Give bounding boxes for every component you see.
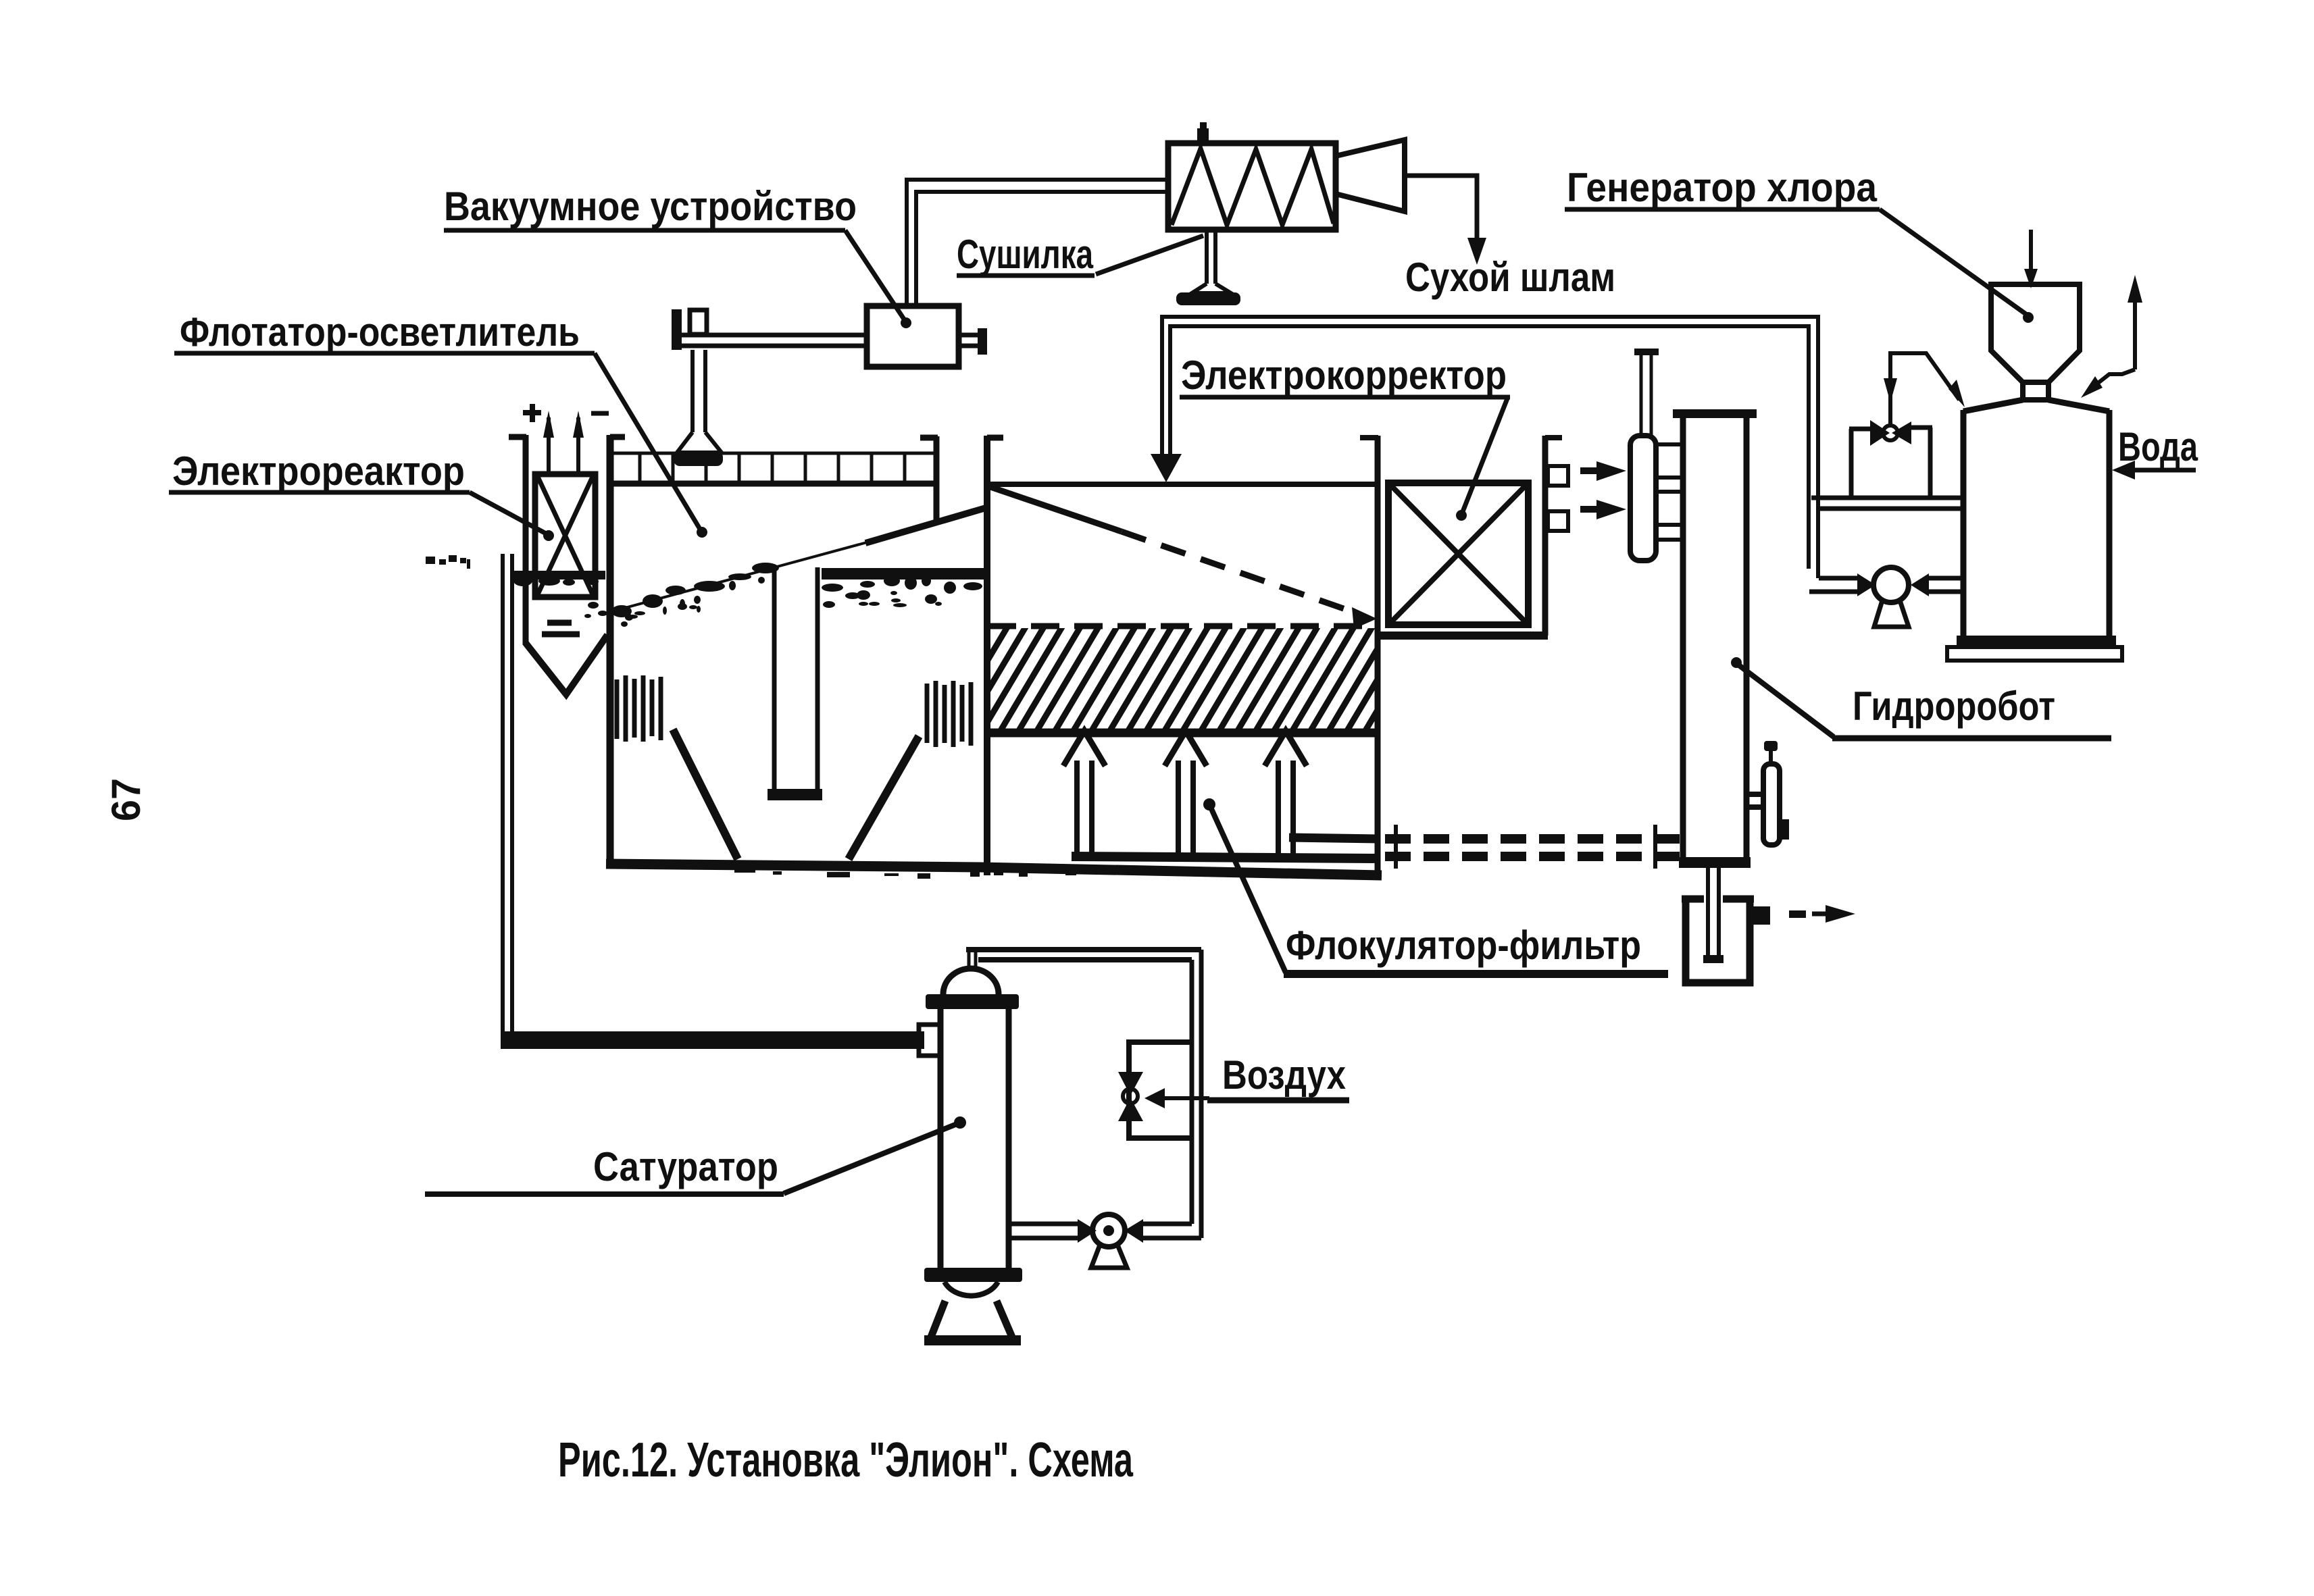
saturator shell <box>940 1008 1009 1268</box>
svg-text:Флотатор-осветлитель: Флотатор-осветлитель <box>180 309 580 355</box>
svg-text:Сухой шлам: Сухой шлам <box>1405 255 1615 300</box>
label Флокулятор-фильтр <box>1203 798 1668 974</box>
sludge drain dashed line upper <box>1385 834 1680 844</box>
mixer comb plates <box>1656 444 1683 540</box>
lattice end post <box>920 436 938 521</box>
outlet pipe cap <box>1703 955 1724 963</box>
valve loop <box>1849 428 1932 498</box>
level gauge stubs <box>1749 794 1765 807</box>
pipe thick run to saturator <box>501 1031 924 1049</box>
label Электрокорректор <box>1180 353 1510 521</box>
vacuum shaft left flange <box>672 309 682 350</box>
filter bed top dashed <box>988 623 1376 629</box>
label Гидроробот <box>1731 657 2111 738</box>
svg-text:Сушилка: Сушилка <box>957 232 1093 277</box>
saturator bottom flange <box>924 1268 1022 1282</box>
dryer screw zigzag <box>1172 149 1334 225</box>
vacuum device body <box>867 306 959 367</box>
wash manifold pipe <box>1072 856 1380 858</box>
saturator outlet pipe to pump <box>1009 1219 1097 1243</box>
discharge out arrow <box>1789 905 1855 923</box>
bypass line to tank <box>1884 353 1965 426</box>
hydrorobot top cap <box>1673 409 1757 418</box>
dryer stand stem <box>1192 231 1231 293</box>
svg-text:Вакуумное устройство: Вакуумное устройство <box>444 184 857 229</box>
label Сатуратор <box>425 1116 966 1194</box>
flotator T baffle <box>768 567 822 800</box>
flotator sludge hopper V <box>673 729 919 859</box>
outlet stub upper <box>1548 466 1568 486</box>
label Генератор хлора <box>1565 165 2034 323</box>
feed arrow into flocculator <box>1151 454 1182 482</box>
hopper feed arrow <box>2024 230 2038 288</box>
hydrorobot outlet pipe <box>1708 868 1719 958</box>
hopper neck <box>2023 382 2048 400</box>
flotator right aerator comb <box>927 681 971 747</box>
circulation right riser <box>1192 950 1201 1238</box>
flocculator sludge rake diagonal <box>988 486 1351 611</box>
svg-text:Электрореактор: Электрореактор <box>172 448 465 494</box>
level gauge body <box>1763 764 1780 845</box>
wash arrow 3 <box>1265 731 1307 854</box>
vacuum device shaft <box>682 335 867 346</box>
svg-text:Генератор хлора: Генератор хлора <box>1567 165 1878 210</box>
dryer top stem <box>1197 128 1209 145</box>
svg-text:Вода: Вода <box>2118 424 2198 469</box>
mixer paddle <box>1630 436 1656 561</box>
saturator pump <box>1091 1214 1127 1268</box>
label Вакуумное устройство <box>444 184 911 328</box>
wire minus electrode <box>573 411 584 474</box>
saturator inlet stub <box>919 1025 940 1056</box>
pipe saturator riser left <box>503 554 512 1033</box>
svg-text:Гидроробот: Гидроробот <box>1853 684 2055 729</box>
svg-text:Флокулятор-фильтр: Флокулятор-фильтр <box>1286 923 1641 968</box>
hydrorobot column walls <box>1683 417 1746 859</box>
pump right pipe <box>1911 573 1961 596</box>
generator base tray <box>1947 647 2122 661</box>
label Воздух <box>1145 1052 1349 1108</box>
mixer rod <box>1634 349 1659 438</box>
generator tank bottom <box>1957 636 2116 647</box>
electroreactor settling funnel <box>526 635 607 694</box>
filter bed hatch stripes <box>945 625 1428 733</box>
saturator dome stub <box>969 947 976 971</box>
saturator top flange <box>926 994 1019 1009</box>
svg-text:Сатуратор: Сатуратор <box>593 1144 778 1189</box>
vacuum support leg <box>677 350 722 453</box>
generator tank <box>1963 400 2109 640</box>
chlorine pump skirt <box>1874 600 1909 627</box>
outlet arrow upper <box>1580 461 1626 481</box>
flotator left aerator comb <box>617 675 661 742</box>
level gauge side stub <box>1779 819 1789 840</box>
air box frame <box>1129 1042 1192 1138</box>
wash arrow 1 <box>1063 731 1105 854</box>
drain tick 1 <box>1394 825 1398 869</box>
outlet stub lower <box>1548 511 1568 531</box>
flocculator right wall <box>1360 436 1378 871</box>
electroreactor electrode box <box>535 474 595 597</box>
label Вода <box>2112 424 2198 480</box>
svg-text:Воздух: Воздух <box>1222 1052 1346 1098</box>
discharge box stub <box>1753 906 1770 925</box>
label Сушилка <box>957 232 1203 277</box>
flotator skimmer lattice <box>607 453 939 484</box>
wire plus electrode <box>543 411 554 474</box>
dryer outlet horn <box>1336 140 1405 211</box>
electrocorrector compartment bottom <box>1376 632 1548 640</box>
chlorine pump circle <box>1873 567 1909 602</box>
sludge drain dashed line lower <box>1385 852 1680 861</box>
riser to pump pipe <box>1124 1219 1201 1243</box>
saturator dome <box>943 969 999 994</box>
electrocorrector right wall <box>1545 436 1562 636</box>
drain tick 2 <box>1653 825 1657 869</box>
dryer stand base <box>1176 292 1240 305</box>
electrocorrector box <box>1388 483 1528 625</box>
wash arrow 2 <box>1165 731 1207 854</box>
dryer discharge line <box>1405 176 1477 240</box>
electroreactor outlet dashes <box>542 623 580 634</box>
saturator circulation top pipe <box>966 950 1201 960</box>
vacuum support base <box>674 451 723 466</box>
svg-text:67: 67 <box>103 778 149 821</box>
vent arrow up <box>2081 275 2142 398</box>
flotator left wall <box>610 435 625 867</box>
level gauge top knob <box>1764 741 1778 764</box>
rake arrowhead <box>1352 607 1377 629</box>
vacuum shaft right stub <box>959 335 979 346</box>
minus terminal sign <box>591 411 609 416</box>
saturator skirt base <box>924 1335 1021 1345</box>
dryer discharge arrow <box>1467 238 1486 265</box>
svg-text:Электрокорректор: Электрокорректор <box>1181 353 1507 398</box>
chlorine hopper <box>1991 284 2080 382</box>
outlet arrow lower <box>1580 500 1626 519</box>
recycle pipe top long run <box>1162 317 1818 578</box>
foam scum layer speckles <box>426 555 1365 879</box>
vacuum shaft handle stem <box>690 310 707 334</box>
water main pipe <box>1811 498 1961 509</box>
plus terminal sign <box>523 404 541 422</box>
saturator skirt <box>930 1301 1013 1339</box>
pipe vacuum to dryer <box>907 180 1169 306</box>
flotator water surface line <box>610 542 867 612</box>
bypass valve <box>1870 420 1911 446</box>
pump left pipe <box>1809 573 1876 596</box>
upper drain pipe <box>1289 838 1380 839</box>
flotator scum chute line <box>865 508 986 543</box>
svg-text:Рис.12. Установка "Элион". Схе: Рис.12. Установка "Элион". Схема <box>558 1433 1134 1487</box>
vacuum shaft right flange <box>978 328 987 355</box>
label Флотатор-осветлитель <box>174 309 707 538</box>
hydrorobot bottom <box>1679 857 1751 868</box>
filter bed bottom line <box>988 729 1376 738</box>
flocculator top edge <box>987 482 1377 487</box>
dryer body <box>1168 143 1336 230</box>
air valve <box>1118 1072 1143 1121</box>
saturator bottom bowl <box>945 1282 998 1296</box>
electroreactor chamber left wall <box>509 435 526 645</box>
flocculator left wall <box>987 436 1003 875</box>
label Электрореактор <box>169 448 554 541</box>
discharge box <box>1682 898 1754 983</box>
tank bottom <box>606 864 1382 875</box>
